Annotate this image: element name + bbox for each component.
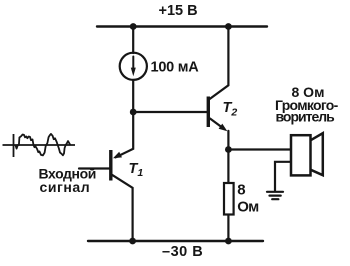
wire: output node to loudspeaker [228,148,291,150]
wire: node A down to T1 emitter bend [116,112,134,157]
node dot: bottom rail / T1 collector [129,238,136,245]
wire: T2 emitter to output node [227,131,229,150]
transistor T2 base bar [207,97,210,128]
node dot: top rail / current source [130,23,137,30]
transistor T1 emitter arrowhead [113,152,122,159]
transistor T1 base bar [109,150,112,181]
wire: T2 emitter lead [210,119,221,127]
svg-text:–30 В: –30 В [162,244,203,260]
node dot: top rail / T2 collector [225,23,232,30]
svg-text:сигнал: сигнал [40,179,91,195]
node dot: node A (current source, T1 emitter, T2 base) [130,109,137,116]
wire: loudspeaker return to ground [275,162,291,191]
current source I1 arrow shaft [132,57,134,71]
transistor T2 emitter arrowhead [219,124,228,132]
svg-text:T1: T1 [129,161,144,179]
node dot: output node (T2 emitter, resistor, speaker) [225,146,232,153]
wire: resistor to bottom rail [227,215,229,242]
input signal waveform sketch [3,134,76,157]
wire: current source to node A [132,80,134,112]
wire: +15V top supply rail [97,25,267,27]
svg-text:воритель: воритель [276,109,336,125]
current source I1 arrowhead [131,68,136,77]
ground symbol [267,192,283,199]
svg-text:Ом: Ом [237,198,259,215]
wire: T1 collector lead to bottom rail [112,175,133,241]
svg-text:100 мА: 100 мА [151,60,200,76]
wire: top rail to current source [132,27,134,54]
resistor R (8 Ohm) body [224,183,234,215]
wire: T1 base lead [79,167,110,169]
node dot: bottom rail / resistor [225,238,232,245]
current source I1 circle [120,53,147,80]
wire: T2 collector lead up to top rail [210,27,228,99]
loudspeaker body rectangle [291,135,311,175]
wire: output node to resistor [227,150,229,184]
svg-text:T2: T2 [223,100,238,119]
wire: node A to T2 base [133,111,207,113]
wire: -30V bottom supply rail [88,240,263,242]
loudspeaker cone [311,133,323,175]
svg-text:+15 В: +15 В [159,3,198,19]
svg-text:8: 8 [237,182,245,199]
